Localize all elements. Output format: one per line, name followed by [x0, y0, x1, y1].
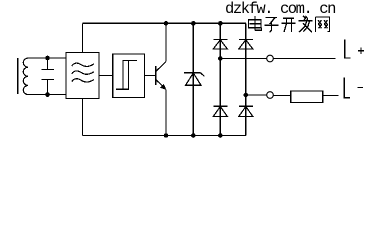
glyph kai: [282, 18, 296, 32]
wire top bus: [83, 22, 246, 24]
wire filter box bottom lead: [82, 99, 84, 136]
wire filter box top lead: [82, 23, 84, 52]
wire schmitt to transistor base: [145, 74, 156, 76]
wire coil top to filter: [28, 57, 66, 59]
junction left rail at top bus: [219, 22, 222, 25]
wire left midpoint to L+ terminal: [220, 58, 266, 60]
junction capacitor bottom: [46, 93, 49, 96]
wire right midpoint to resistor: [246, 94, 267, 96]
junction zener top: [192, 22, 195, 25]
wire terminal to L+ label: [273, 58, 335, 60]
bridge left rail: [219, 23, 221, 135]
svg-text:dzkfw. com. cn: dzkfw. com. cn: [225, 0, 335, 18]
glyph wang: [316, 17, 330, 32]
zener diode DZ: [184, 23, 205, 135]
terminal circle L-: [267, 92, 274, 99]
core bar of pickup coil: [17, 58, 19, 94]
junction capacitor top: [46, 56, 49, 59]
resistor R: [291, 91, 323, 102]
bridge diode D4 lower-right: [239, 106, 253, 116]
bridge right rail: [245, 23, 247, 135]
node L- label: [344, 78, 363, 98]
inductor coil: [23, 58, 28, 95]
bridge diode D1 upper-left: [213, 40, 227, 49]
transistor Q1: [156, 23, 167, 135]
bridge diode D3 lower-left: [213, 106, 227, 116]
schmitt trigger box U2: [113, 54, 145, 98]
filter wave 3: [72, 79, 94, 82]
watermark chinese text 电子开发网: [249, 16, 330, 32]
junction left rail at bottom bus: [219, 134, 222, 137]
glyph fa: [299, 16, 313, 32]
hysteresis symbol: [116, 60, 137, 89]
filter box U1: [66, 53, 99, 99]
junction zener bottom: [192, 134, 195, 137]
wire bottom bus: [83, 135, 246, 137]
junction emitter at bottom bus: [164, 134, 167, 137]
junction bridge left midpoint: [219, 57, 222, 60]
filter wave 1: [72, 63, 94, 66]
bridge diode D2 upper-right: [239, 40, 253, 49]
glyph dian: [249, 16, 262, 31]
junction collector at top bus: [164, 22, 167, 25]
junction bridge right midpoint: [244, 93, 247, 96]
node L+ label: [345, 40, 365, 58]
filter wave 2: [72, 71, 94, 74]
wire coil bottom to filter: [28, 94, 66, 96]
capacitor C: [42, 58, 54, 95]
wire filter to schmitt: [99, 74, 113, 76]
wire terminal to resistor: [273, 95, 291, 97]
terminal circle L+: [267, 55, 274, 62]
glyph zi: [265, 18, 279, 33]
wire resistor to L- label: [323, 95, 339, 97]
